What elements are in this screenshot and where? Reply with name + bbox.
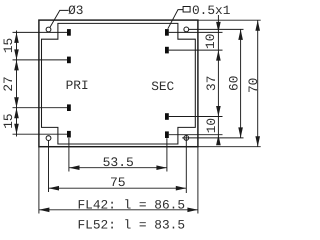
extension line left pin column bbox=[68, 138, 70, 172]
extension line left body edge bbox=[38, 147, 40, 214]
label dim 53.5 bbox=[103, 155, 134, 170]
dimension chain line left 15/27/15 bbox=[14, 31, 19, 137]
dimension line 53.5 bbox=[69, 165, 167, 170]
pin SEC row3 bbox=[165, 113, 169, 120]
label SEC bbox=[151, 79, 174, 94]
extension line left pin row1 bbox=[13, 31, 68, 33]
dimension chain line right 10/37/10 bbox=[216, 15, 221, 145]
extension line right pin row2 bbox=[169, 49, 223, 51]
leader line hole diameter bbox=[50, 10, 69, 27]
label FL42 length bbox=[78, 198, 186, 213]
extension line top hole row bbox=[189, 28, 244, 30]
extension line top body edge bbox=[198, 19, 261, 21]
svg-text:10: 10 bbox=[204, 118, 219, 133]
svg-text:15: 15 bbox=[1, 38, 16, 53]
pin PRI row2 bbox=[67, 57, 71, 64]
label dim 10 top bbox=[203, 34, 218, 49]
svg-text:15: 15 bbox=[1, 113, 16, 128]
pin SEC row2 bbox=[165, 47, 169, 54]
pin PRI row1 bbox=[67, 29, 71, 36]
extension line bottom body edge bbox=[198, 146, 261, 148]
extension line left pin row3 bbox=[13, 107, 68, 109]
extension line right body edge bbox=[197, 147, 199, 214]
mounting hole bottom-right bbox=[184, 136, 189, 141]
label FL52 length bbox=[78, 217, 186, 232]
svg-text:60: 60 bbox=[226, 76, 241, 91]
label dim 70 bbox=[246, 78, 261, 93]
mounting hole top-right bbox=[184, 27, 189, 32]
svg-text:27: 27 bbox=[1, 76, 16, 91]
mounting hole top-left bbox=[46, 27, 51, 32]
label dim 75 bbox=[110, 175, 126, 190]
svg-text:FL52: l = 83.5: FL52: l = 83.5 bbox=[78, 217, 186, 229]
mounting hole bottom-left bbox=[46, 136, 51, 141]
pin SEC row1 bbox=[165, 29, 169, 36]
svg-text:75: 75 bbox=[110, 175, 126, 190]
label 0.5x1 bbox=[192, 3, 231, 18]
label dim 15 bottom bbox=[1, 113, 16, 128]
label PRI bbox=[66, 78, 89, 93]
pin cross-section symbol bbox=[183, 7, 190, 13]
dimension line FL overall length bbox=[39, 208, 198, 213]
svg-text:FL42: l = 86.5: FL42: l = 86.5 bbox=[78, 198, 186, 213]
dimension line 70 bbox=[255, 20, 260, 147]
svg-text:0.5x1: 0.5x1 bbox=[192, 3, 231, 18]
label dim 60 bbox=[226, 76, 241, 91]
pin PRI row3 bbox=[67, 104, 71, 111]
svg-text:37: 37 bbox=[204, 76, 219, 91]
svg-text:Ø3: Ø3 bbox=[68, 3, 83, 18]
leader line pin cross-section bbox=[168, 10, 183, 29]
dimension line 75 bbox=[49, 186, 187, 191]
label diameter 3 bbox=[68, 3, 83, 18]
extension line right hole column bbox=[185, 135, 187, 193]
svg-text:53.5: 53.5 bbox=[103, 155, 134, 170]
svg-text:10: 10 bbox=[203, 34, 218, 49]
extension line right pin row3 bbox=[169, 116, 223, 118]
extension line bottom hole row bbox=[182, 137, 243, 139]
label dim 10 bottom bbox=[204, 118, 219, 133]
svg-text:70: 70 bbox=[246, 78, 261, 93]
pin PRI row4 bbox=[67, 131, 71, 138]
extension line right pin row1 bbox=[169, 31, 223, 33]
dimension line 60 bbox=[238, 29, 243, 137]
transformer body outer outline bbox=[39, 20, 198, 147]
extension line right pin column bbox=[166, 138, 168, 171]
extension line left pin row4 bbox=[13, 133, 68, 135]
label dim 15 top bbox=[1, 38, 16, 53]
svg-text:SEC: SEC bbox=[151, 79, 174, 94]
bobbin inner outline with corner notches bbox=[42, 23, 196, 144]
extension line left hole column bbox=[48, 141, 50, 192]
extension line left pin row2 bbox=[13, 59, 68, 61]
pin SEC row4 bbox=[165, 131, 169, 138]
label dim 27 bbox=[1, 76, 16, 91]
svg-text:PRI: PRI bbox=[66, 78, 89, 93]
extension line right pin row4 bbox=[169, 134, 223, 136]
label dim 37 bbox=[204, 76, 219, 91]
